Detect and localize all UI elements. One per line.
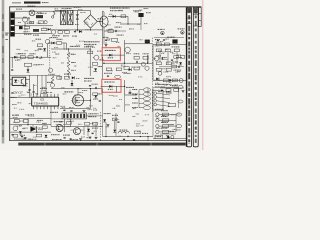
capacitor C55: [167, 135, 169, 138]
header label: [42, 2, 49, 3]
margin tick: [5, 38, 8, 41]
resistor R12: [121, 15, 126, 18]
label: [47, 82, 53, 83]
capacitor C21: [33, 91, 35, 94]
pin decoupling caps: [43, 92, 52, 94]
label: [126, 87, 134, 88]
label: [84, 44, 96, 45]
label: [67, 119, 72, 120]
wire: [124, 95, 126, 112]
diode D29: [169, 79, 172, 82]
ground: [79, 139, 82, 141]
junction: [140, 136, 141, 137]
label: [110, 10, 123, 11]
label: [63, 35, 69, 36]
wire: [114, 121, 116, 129]
caption text: [52, 138, 62, 141]
optocoupler phototransistor: [21, 78, 24, 84]
wire: [123, 40, 125, 47]
resistor R37: [165, 49, 170, 52]
resistor R39: [156, 62, 161, 65]
title block column 1: [187, 7, 192, 146]
resistor R4: [25, 26, 30, 29]
wire: [15, 10, 66, 12]
label: [37, 120, 43, 121]
wire: [73, 10, 91, 12]
transistor T16: [166, 135, 170, 138]
label LED: [108, 57, 114, 58]
spark gap: [76, 11, 79, 30]
resistor R71: [180, 56, 184, 59]
diode D14 blob: [172, 39, 177, 43]
wire: [71, 80, 73, 86]
hot-cold dashed separator: [151, 38, 153, 112]
ground: [129, 92, 132, 94]
resistor R16: [20, 56, 25, 59]
wire: [103, 38, 105, 44]
wire: [89, 49, 91, 76]
output transistor row1: [156, 113, 159, 116]
junction: [41, 57, 42, 58]
transistor T13: [13, 126, 18, 131]
pin label: [132, 94, 138, 95]
diode D28 blob: [145, 40, 150, 44]
diode D3: [79, 30, 82, 33]
row label: [161, 122, 168, 123]
diode D9: [27, 69, 30, 72]
resistor R25: [92, 63, 97, 66]
label LA1: [16, 9, 22, 10]
wire: [160, 87, 184, 89]
wire: [104, 30, 120, 32]
label ON/OFF SWITCH: [105, 50, 116, 51]
label: [52, 35, 60, 36]
pin label: [132, 103, 138, 104]
junction: [90, 100, 91, 101]
label: [170, 85, 178, 86]
transistor T14 BU508A: [56, 125, 63, 132]
pink page edge: [202, 0, 203, 150]
wire: [153, 80, 186, 82]
label: [104, 113, 111, 114]
row label: [161, 110, 168, 111]
resistor R58: [84, 122, 89, 125]
label STANDBY SW: [104, 82, 114, 83]
resistor R13: [108, 30, 113, 33]
capacitor C14: [105, 39, 107, 42]
ground: [182, 91, 185, 93]
connector pin P2: [178, 86, 183, 89]
diode D18: [71, 83, 74, 86]
label: [56, 39, 62, 40]
caption text: [23, 138, 31, 141]
resistor row1: [162, 113, 168, 116]
resistor R32: [116, 68, 121, 71]
capacitor C54: [92, 132, 94, 135]
transistor T3: [94, 55, 99, 60]
label 230V block: [33, 29, 39, 32]
wire: [123, 47, 125, 63]
resistor R31: [106, 68, 111, 71]
wire: [59, 76, 61, 80]
capacitor C51: [157, 39, 159, 42]
label: [71, 70, 76, 71]
resistor R75: [66, 122, 71, 125]
capacitor C26: [99, 100, 101, 103]
optocoupler LED: [14, 80, 19, 83]
svg-text:CNY17: CNY17: [13, 90, 23, 94]
thyristor TH1: [30, 126, 36, 131]
resistor R21 zigzag: [67, 52, 70, 59]
label: [166, 92, 172, 93]
resistor R30: [124, 67, 129, 70]
transistor T11: [179, 79, 183, 83]
label COLD: [70, 46, 80, 47]
capacitor C10: [36, 56, 39, 58]
label: [99, 59, 104, 60]
label Q4: [178, 28, 185, 29]
resistor R75b: [168, 103, 175, 106]
junction: [147, 136, 148, 137]
wire: [56, 9, 62, 11]
resistor R35: [164, 43, 169, 46]
resistor R47: [57, 76, 62, 79]
label ON/OFF 2 SWITCH: [110, 8, 130, 9]
label Q3: [158, 29, 165, 30]
ground: [89, 137, 92, 139]
connector pin P2b: [178, 100, 183, 103]
diode D15: [179, 62, 182, 65]
label: [142, 133, 148, 134]
diode D13: [129, 68, 132, 71]
IC pins top: [34, 94, 59, 97]
label: [117, 35, 124, 36]
label: [71, 62, 76, 63]
wire: [102, 57, 104, 79]
label: [155, 109, 164, 110]
junction: [27, 124, 28, 125]
capacitor C53: [161, 89, 163, 92]
label +B rail: [155, 84, 167, 85]
capacitor C11: [11, 69, 13, 72]
bridge diode marks: [88, 18, 93, 25]
diode D6 blob: [138, 13, 143, 17]
wire: [115, 113, 117, 137]
scan speckle: [5, 7, 201, 142]
transistor T2: [45, 39, 49, 43]
optocoupler IC1 CNY17 box: [12, 77, 26, 85]
resistor R34: [156, 43, 161, 46]
ground: [107, 125, 110, 127]
connector pin 4: [143, 101, 150, 105]
label: [155, 87, 165, 88]
wire: [153, 138, 186, 140]
junction: [147, 63, 148, 64]
wire: [153, 58, 156, 60]
capacitor C30: [135, 93, 137, 96]
title block header cell fill 2: [194, 8, 198, 13]
junction: [24, 25, 25, 26]
capacitor C27: [63, 109, 65, 112]
connector comb: [62, 113, 86, 119]
diode D25: [103, 119, 106, 122]
label: [84, 81, 92, 82]
caption bar light gaps: [44, 143, 152, 146]
connector CN2 box: [153, 90, 163, 110]
wire: [125, 94, 136, 96]
label above lamp: [28, 6, 36, 7]
title block rotated text column 2: [195, 9, 197, 143]
MOSFET T10 BUZ90: [72, 95, 83, 106]
diode D8: [14, 56, 17, 59]
label: [38, 49, 43, 50]
ground: [83, 110, 86, 112]
label C800: [98, 21, 104, 22]
transistor T5: [125, 47, 130, 52]
wire: [147, 55, 149, 63]
label: [115, 27, 122, 28]
resistor R15: [37, 44, 42, 47]
transistor T17: [171, 135, 174, 138]
label: [12, 115, 19, 116]
resistor R70: [174, 56, 179, 59]
label: [72, 36, 77, 37]
hot-cold dashed separator lower: [100, 112, 102, 141]
wire: [51, 125, 103, 127]
resistor R48: [64, 76, 69, 79]
connector pin 1: [143, 88, 150, 92]
wire: [103, 10, 104, 12]
fuse F2 zigzag: [53, 10, 56, 16]
resistor R72: [172, 65, 177, 68]
connector CN2 fan wires: [157, 93, 170, 106]
resistor R78: [42, 126, 47, 129]
wire: [26, 78, 30, 80]
wire: [30, 93, 32, 98]
caption bar: [18, 143, 185, 146]
label HOT AREA: [84, 41, 100, 42]
label: [172, 46, 180, 47]
mains connector block: [10, 12, 14, 36]
label F1: [37, 13, 43, 14]
wire: [169, 91, 171, 94]
wire: [70, 119, 72, 126]
resistor R44: [41, 91, 46, 94]
wire: [86, 115, 102, 117]
label: [176, 57, 182, 58]
resistor R30b: [134, 67, 139, 70]
transistor T8: [158, 72, 162, 76]
pin label: [132, 107, 137, 108]
wire: [101, 85, 125, 87]
gutter rotated text: [2, 14, 3, 137]
wire: [10, 124, 51, 126]
resistor R73: [166, 89, 171, 92]
wire: [41, 75, 43, 90]
filter choke L603: [118, 132, 129, 134]
label L603: [120, 130, 128, 131]
label BUZ90: [64, 91, 73, 92]
label B250: [98, 18, 104, 19]
wire: [147, 55, 149, 63]
wire: [45, 90, 47, 98]
label: [33, 35, 39, 36]
label: [64, 74, 71, 75]
wire: [160, 133, 176, 135]
wire: [62, 42, 66, 44]
resistor R56: [36, 134, 41, 137]
wire: [154, 37, 184, 39]
wire: [89, 89, 91, 109]
wire: [103, 136, 153, 138]
scan gutter strip: [2, 0, 5, 144]
wire: [10, 83, 12, 85]
transistor T6: [142, 63, 146, 67]
resistor R80: [112, 118, 117, 121]
transistor T9: [50, 83, 54, 87]
connector pin P4: [176, 125, 182, 128]
junction: [77, 29, 78, 30]
resistor R49: [93, 93, 98, 96]
wire: [90, 11, 92, 15]
wire: [177, 87, 179, 108]
junction: [90, 29, 91, 30]
highlight box ON/OFF switch: [102, 48, 120, 61]
label REM: [156, 136, 162, 137]
label: [11, 97, 17, 98]
connector pin 5: [143, 106, 150, 110]
diode D1 blob: [19, 26, 23, 29]
label LED: [108, 89, 113, 90]
wire: [124, 80, 126, 95]
title block top cell: [199, 7, 202, 26]
junction: [124, 86, 125, 87]
label: [98, 66, 103, 67]
wire: [153, 43, 186, 45]
label: [42, 123, 47, 124]
title block column 2: [193, 7, 198, 146]
wire: [45, 75, 47, 90]
resistor R18: [24, 63, 31, 66]
diode D17: [72, 76, 75, 79]
wire: [120, 30, 126, 32]
wire: [37, 75, 39, 95]
label: [146, 12, 151, 13]
wire: [11, 57, 13, 68]
svg-text:TDA4605: TDA4605: [34, 102, 48, 106]
resistor R38: [174, 49, 179, 52]
label: [174, 70, 182, 71]
label: [172, 62, 178, 63]
resistor R51: [163, 79, 168, 82]
resistor R61: [134, 131, 140, 134]
capacitor C24: [89, 84, 91, 87]
output transistor row2: [156, 119, 159, 122]
fuse end cap: [52, 16, 54, 18]
label: [51, 134, 60, 135]
junction: [127, 23, 128, 24]
ground: [105, 45, 108, 47]
module REM box: [155, 135, 163, 139]
transistor Q3: [161, 31, 165, 35]
junction: [103, 63, 104, 64]
title block header cell fill: [187, 8, 191, 12]
resistor R8: [65, 31, 70, 34]
wire: [10, 131, 51, 133]
header small text: [12, 2, 21, 3]
wire: [65, 43, 67, 49]
diode D30: [19, 131, 22, 134]
wire: [116, 86, 118, 92]
label: [71, 54, 75, 55]
diode D2: [48, 28, 51, 31]
wire: [159, 66, 184, 68]
label: [104, 73, 112, 74]
capacitor C34: [21, 135, 23, 138]
label: [133, 10, 141, 11]
capacitor C20: [29, 89, 31, 92]
wire: [140, 17, 142, 24]
label: [84, 78, 94, 79]
capacitor C52: [163, 39, 165, 42]
resistor R59: [92, 122, 97, 125]
degauss coil L1: [61, 10, 66, 24]
wire: [63, 43, 65, 49]
wire: [15, 17, 29, 19]
neon indicator: [44, 21, 47, 24]
label: [124, 73, 131, 74]
resistor R74: [174, 89, 179, 92]
connector pin P1: [115, 75, 121, 78]
wire: [147, 88, 149, 95]
wire: [27, 67, 29, 72]
IC pins bottom: [34, 106, 59, 109]
junction: [90, 88, 91, 89]
bridge rectifier B250C800: [84, 15, 97, 28]
wire: [50, 109, 52, 127]
fuse label block: [36, 15, 43, 18]
wire: [95, 122, 97, 136]
wire: [153, 86, 178, 88]
capacitor C40: [133, 139, 135, 142]
wire: [51, 48, 90, 50]
junction: [77, 88, 78, 89]
wire: [97, 20, 103, 22]
label: [33, 64, 39, 65]
label: [48, 74, 55, 75]
capacitor C57: [117, 121, 119, 124]
wire: [127, 16, 129, 24]
connector pin 2: [143, 92, 150, 96]
wire: [60, 108, 90, 110]
capacitor C37: [70, 138, 72, 141]
LED D12 in switch: [109, 54, 112, 57]
label degauss coil: [62, 7, 72, 10]
resistor R41: [156, 68, 161, 71]
resistor R3: [38, 21, 43, 24]
ground: [24, 137, 27, 139]
resistor R46 zigzag: [51, 76, 54, 82]
junction: [105, 136, 106, 137]
resistor row3: [162, 125, 168, 128]
junction: [90, 48, 91, 49]
capacitor C29: [107, 75, 109, 78]
capacitor C15: [136, 61, 139, 63]
output transistor row3: [156, 124, 159, 127]
junction: [127, 136, 128, 137]
label: [156, 55, 161, 56]
label BU508A: [54, 121, 63, 122]
